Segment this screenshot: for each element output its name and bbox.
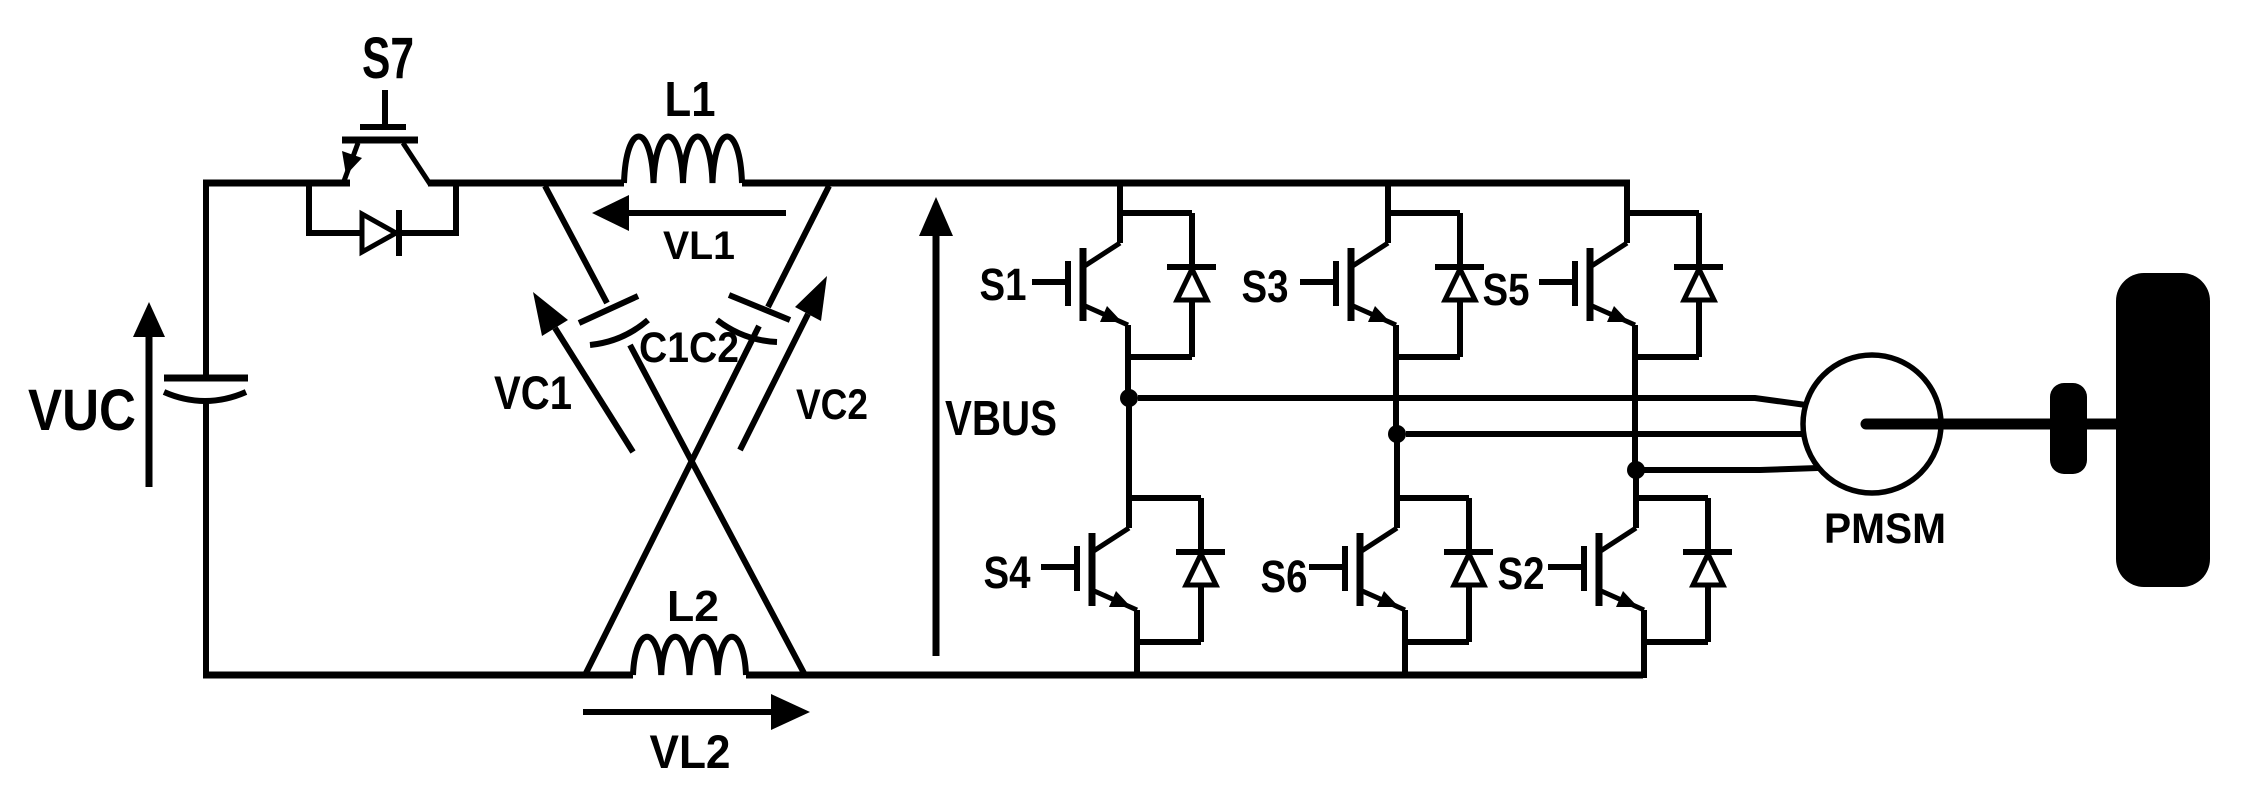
svg-text:S4: S4: [984, 547, 1031, 598]
svg-text:S3: S3: [1242, 261, 1289, 312]
svg-text:VC1: VC1: [494, 366, 572, 419]
svg-text:S1: S1: [980, 259, 1027, 310]
svg-text:L2: L2: [667, 582, 719, 631]
svg-text:VUC: VUC: [28, 378, 136, 443]
svg-text:VC2: VC2: [796, 381, 868, 429]
svg-text:VL2: VL2: [650, 725, 731, 778]
svg-text:C1C2: C1C2: [639, 324, 739, 372]
svg-text:S7: S7: [362, 26, 414, 91]
svg-text:S2: S2: [1498, 548, 1545, 599]
svg-text:S6: S6: [1261, 551, 1308, 602]
svg-text:PMSM: PMSM: [1824, 505, 1946, 553]
svg-text:S5: S5: [1483, 264, 1530, 315]
svg-text:VL1: VL1: [663, 224, 735, 268]
svg-text:VBUS: VBUS: [945, 392, 1057, 446]
svg-text:L1: L1: [665, 73, 716, 127]
